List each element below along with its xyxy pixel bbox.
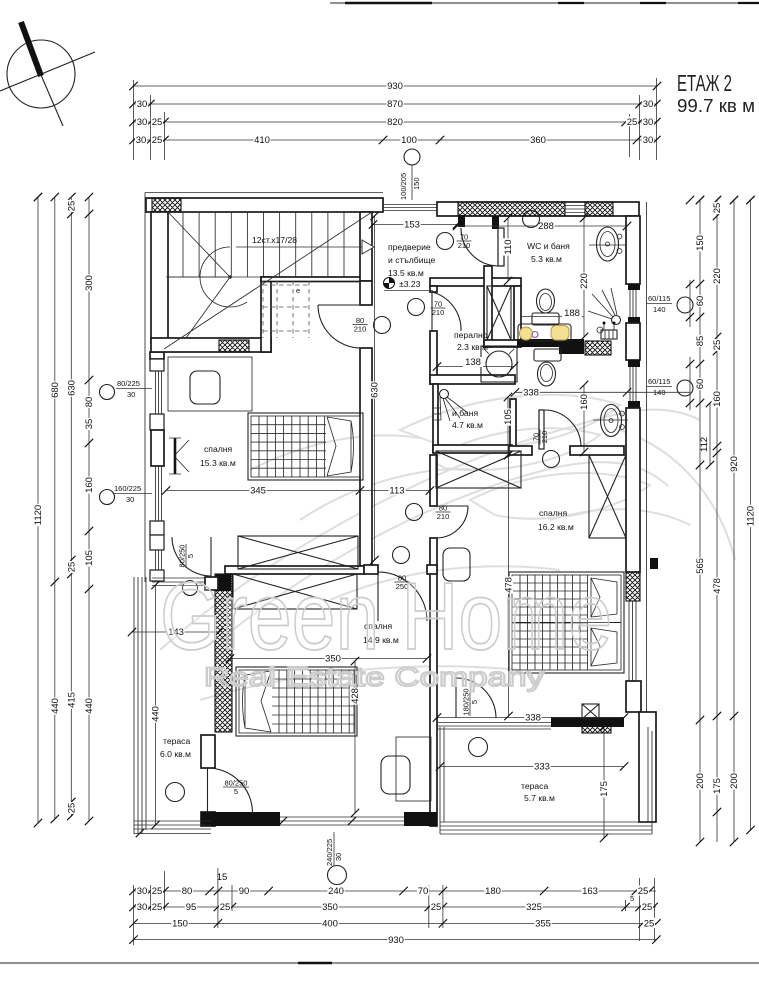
svg-text:930: 930 [387, 81, 403, 92]
svg-text:30: 30 [334, 853, 343, 861]
svg-text:85: 85 [695, 336, 706, 347]
svg-text:и стълбище: и стълбище [388, 255, 436, 265]
svg-text:338: 338 [525, 713, 541, 724]
dimension line 338 upper [511, 387, 690, 399]
svg-text:ЕТАЖ 2: ЕТАЖ 2 [677, 70, 732, 96]
svg-text:30: 30 [643, 117, 654, 128]
door label DB 80/250 [395, 574, 410, 592]
door label D8 180/250 [462, 688, 480, 716]
svg-text:60/115: 60/115 [648, 294, 670, 303]
bed 3 bedroom 16.2 double [509, 572, 624, 673]
svg-text:415: 415 [67, 692, 78, 708]
hatched wall bedroom2 west hatched wall [215, 574, 232, 732]
door label D5 70/210 [457, 233, 472, 251]
dimension line 1120 left [33, 193, 45, 827]
svg-text:60/115: 60/115 [648, 377, 670, 386]
svg-text:220: 220 [712, 268, 723, 284]
svg-text:80: 80 [84, 397, 95, 408]
svg-text:тераса: тераса [163, 736, 190, 746]
wall right wall top [626, 216, 640, 284]
solid wall jamb window1 bottom [628, 317, 640, 323]
room label bedroom 14.9 [363, 621, 399, 645]
svg-text:350: 350 [322, 902, 338, 913]
wall bedroom divider wall [225, 566, 364, 574]
dimension 112 right [699, 399, 714, 469]
solid wall jamb window2 bottom [628, 401, 640, 408]
svg-text:630: 630 [370, 382, 381, 398]
svg-text:440: 440 [151, 706, 162, 722]
bed 2 bedroom 14.9 [236, 667, 357, 736]
right window stub line 1 [686, 280, 694, 327]
radiator symbol bedroom1 [169, 438, 189, 474]
dimension line 440 terrace [150, 581, 162, 829]
svg-text:5: 5 [186, 554, 195, 558]
svg-text:440: 440 [84, 698, 95, 714]
hatched wall pier top wall WC west [458, 202, 565, 216]
wall bedroom3 top wall west [509, 446, 532, 455]
door/window marker circle door D8 [469, 738, 488, 757]
window1 right glazing [630, 290, 636, 317]
toilet WC [532, 289, 559, 325]
svg-text:35: 35 [84, 419, 95, 430]
wall right wall between windows [626, 323, 640, 360]
dimension 188 WC [521, 308, 584, 319]
wall laundry east wall [514, 286, 521, 347]
svg-text:210: 210 [354, 325, 367, 334]
hatched wall pier under-stair west [152, 338, 181, 352]
terrace north threshold lines [152, 578, 213, 586]
dimension line bottom row1 [129, 886, 656, 898]
svg-text:565: 565 [695, 558, 706, 574]
svg-text:680: 680 [50, 382, 61, 398]
sheet border bottom line [0, 962, 759, 964]
dimension line 338 bedroom3 [433, 712, 628, 724]
terrace east edge lines [648, 727, 652, 834]
dimension 138 laundry [433, 357, 518, 371]
window W1 glazing left wall [156, 371, 162, 414]
watermark leaf curves [160, 395, 735, 700]
svg-text:355: 355 [535, 919, 551, 930]
dimension line 105 bath [503, 393, 515, 459]
window label 80/225 left [116, 379, 152, 399]
stair landing line [168, 276, 261, 278]
wall top wall right block [437, 202, 639, 216]
svg-text:360: 360 [530, 135, 546, 146]
top wall window glazing [565, 206, 585, 213]
svg-text:288: 288 [538, 221, 554, 232]
room label bedroom 16.2 [538, 508, 574, 532]
svg-text:180: 180 [485, 886, 501, 897]
dimension line 410-100-360 top [129, 135, 660, 147]
room label terrace 6.0 [160, 736, 191, 759]
svg-text:30: 30 [136, 135, 147, 146]
svg-text:12ст.х17/28: 12ст.х17/28 [252, 235, 297, 245]
svg-text:160/225: 160/225 [114, 484, 141, 493]
dimension line right chain 1 [695, 196, 707, 846]
door/window marker circle entry door top [404, 149, 420, 165]
dimension line bottom row3 [129, 918, 660, 930]
wall bedroom3 top wall east [570, 446, 624, 455]
svg-text:25: 25 [638, 886, 649, 897]
svg-text:25: 25 [644, 919, 655, 930]
room label bedroom 15.3 [200, 444, 236, 468]
svg-text:25: 25 [712, 340, 723, 351]
door/window marker circle door D3 [374, 317, 391, 334]
window3 right glazing [629, 601, 636, 681]
bottom window glazing bedroom2 [280, 817, 404, 825]
svg-text:2.3 кв.м: 2.3 кв.м [457, 342, 488, 352]
wall stair nook west wall [261, 277, 271, 352]
svg-text:210: 210 [540, 431, 549, 444]
door/window marker circle door D5 [437, 233, 454, 250]
svg-text:100: 100 [401, 135, 417, 146]
door label D4 70/210 [431, 300, 446, 318]
bottom chain guide lines [134, 868, 655, 945]
wardrobe B bedroom2 [233, 574, 357, 609]
svg-text:30: 30 [137, 886, 148, 897]
terrace south railing right [440, 822, 652, 834]
svg-text:240: 240 [328, 886, 344, 897]
svg-text:175: 175 [712, 778, 723, 794]
dimension line 160 bath [579, 381, 591, 456]
outer eave line left [144, 193, 146, 583]
room label terrace 5.7 [521, 781, 555, 803]
svg-text:100/205: 100/205 [399, 173, 408, 200]
svg-text:338: 338 [523, 388, 539, 399]
svg-text:630: 630 [67, 380, 78, 396]
dimension line 630 hall [369, 212, 381, 564]
wall door jamb terrace north [205, 577, 218, 590]
svg-text:1120: 1120 [33, 505, 44, 525]
dimension line 680-440 left [49, 197, 61, 823]
svg-text:210: 210 [437, 512, 450, 521]
solid wall pier WC door [492, 216, 499, 229]
room label WC [527, 241, 570, 264]
svg-text:25: 25 [220, 902, 231, 913]
door/window marker circle balcony door bottom [328, 866, 347, 885]
svg-text:13.5 кв.м: 13.5 кв.м [388, 268, 424, 278]
stair headroom dashed lines [263, 281, 309, 338]
door/window marker circle window 60/115 upper [677, 297, 693, 313]
svg-text:Real Estate Company: Real Estate Company [204, 662, 545, 692]
door/window marker circle window 80/225 [100, 385, 115, 400]
door D4 to laundry [432, 292, 461, 331]
wall right wall middle [626, 408, 640, 572]
svg-text:30: 30 [126, 495, 134, 504]
svg-text:105: 105 [84, 550, 95, 566]
wall under-stair wall [151, 338, 271, 352]
north arrow [0, 22, 95, 126]
svg-text:113: 113 [389, 486, 404, 497]
svg-text:410: 410 [254, 135, 270, 146]
window label 160/225 left [113, 484, 152, 504]
svg-text:5: 5 [470, 700, 479, 704]
right window stub line 2 [686, 357, 694, 410]
svg-text:60: 60 [695, 296, 706, 307]
desk 2 bedroom2 [396, 737, 431, 801]
svg-text:5.3 кв.м: 5.3 кв.м [531, 254, 562, 264]
door D7 to bedroom3 [539, 410, 581, 449]
svg-text:25: 25 [67, 803, 78, 814]
window sill box left wall W2-W3 [150, 521, 164, 535]
wardrobe D [436, 451, 521, 488]
svg-text:105: 105 [503, 409, 514, 425]
svg-text:70: 70 [418, 886, 429, 897]
svg-text:спалня: спалня [204, 444, 232, 454]
solid wall bottom wall east solid [404, 812, 437, 826]
svg-text:188: 188 [564, 308, 580, 319]
dimension line 288 WC [453, 221, 631, 233]
dimension line 333 terrace2 [436, 761, 628, 773]
door D2 bedroom2 to terrace [208, 768, 253, 812]
wall top wall stair block [146, 198, 383, 212]
door DB to bedroom2 [378, 572, 427, 621]
svg-text:WC и баня: WC и баня [527, 241, 570, 251]
wall right wall lower [626, 681, 641, 712]
door label D1 80/250 [178, 544, 196, 568]
vanity counter with basins (highlighted) [518, 324, 571, 341]
wall laundry south wall [430, 375, 515, 384]
svg-text:30: 30 [137, 902, 148, 913]
chair 1 bedroom1 [190, 371, 220, 404]
wall laundry west stub [430, 286, 437, 292]
svg-text:Green Home: Green Home [160, 563, 612, 670]
svg-text:4.7 кв.м: 4.7 кв.м [452, 420, 483, 430]
dimension line 630-415 left [66, 197, 78, 820]
svg-text:99.7 кв м: 99.7 кв м [677, 96, 755, 116]
svg-text:163: 163 [582, 886, 598, 897]
svg-text:150: 150 [172, 919, 188, 930]
wall bedroom2 west corner [201, 812, 215, 826]
wall wall above door D3 [360, 281, 372, 305]
wall hall east / bedroom2 east wall [430, 538, 437, 826]
wall bedroom2 west wall stub [201, 735, 215, 768]
svg-text:e: e [296, 286, 300, 295]
wall WC west wall [484, 266, 492, 347]
dimension line right chain 4 [745, 196, 757, 834]
svg-text:220: 220 [579, 273, 590, 289]
terrace west railing [134, 577, 146, 834]
svg-text:80: 80 [182, 886, 193, 897]
side table bedroom3 [443, 548, 470, 581]
dimension line bottom row4 [129, 934, 660, 946]
right chain top tick row [686, 196, 755, 204]
svg-text:95: 95 [186, 902, 197, 913]
room label laundry [454, 330, 488, 352]
left chain top tick row [34, 193, 93, 201]
svg-text:30: 30 [643, 99, 654, 110]
svg-text:±3.23: ±3.23 [399, 279, 421, 289]
solid wall jamb window1 top [628, 284, 640, 290]
shower grate WC [601, 322, 617, 340]
wardrobe E bedroom3 [589, 455, 626, 538]
door/window marker circle window 60/115 lower [677, 380, 693, 396]
desk 1 bedroom1 [168, 357, 252, 411]
svg-text:160: 160 [712, 391, 723, 407]
wall stair nook top wall [261, 277, 370, 282]
svg-text:25: 25 [627, 117, 638, 128]
svg-text:30: 30 [137, 117, 148, 128]
solid wall bedroom2 west wall solid top [216, 574, 231, 591]
dimension line left inner chain [84, 197, 96, 825]
dimension line 110 WC [503, 214, 515, 285]
stair break line [164, 212, 372, 349]
door/window marker circle WC vent top [523, 211, 540, 228]
dimension line 345-113 bedroom1 [162, 485, 434, 497]
svg-text:138: 138 [465, 357, 481, 368]
wall hall east wall upper [430, 455, 437, 506]
door label D2 80/250 [223, 779, 249, 797]
washing machine laundry [481, 346, 517, 382]
dimension line right chain 3 [729, 196, 741, 846]
svg-text:930: 930 [388, 935, 404, 946]
wall left wall upper [151, 212, 168, 343]
solid wall WC south wall solid [517, 339, 584, 347]
door/window marker circle door D4 [408, 299, 425, 316]
wall bedroom1 east wall [360, 348, 372, 566]
terrace threshold bedroom3 [437, 723, 551, 730]
wall vestibule west wall upper [360, 212, 372, 281]
svg-text:160: 160 [84, 477, 95, 493]
svg-text:820: 820 [387, 117, 403, 128]
svg-text:6.0 кв.м: 6.0 кв.м [160, 749, 191, 759]
svg-text:25: 25 [152, 117, 163, 128]
sink WC [589, 227, 626, 261]
solid wall jamb entry east [458, 215, 465, 227]
svg-text:16.2 кв.м: 16.2 кв.м [538, 522, 574, 532]
solid wall WC south pier [559, 347, 584, 354]
svg-text:25: 25 [712, 203, 723, 214]
svg-text:333: 333 [534, 762, 550, 773]
stair winder circle [200, 247, 247, 307]
shower drain fan WC [588, 288, 621, 333]
svg-text:478: 478 [712, 578, 723, 594]
stair treads upper flight [183, 212, 344, 277]
hatched wall pier top-left corner [152, 198, 181, 212]
hatched wall pier right wall bedroom3 [626, 572, 640, 601]
svg-text:210: 210 [432, 308, 445, 317]
svg-text:перално: перално [454, 330, 488, 340]
svg-text:345: 345 [250, 486, 266, 497]
hatched wall pier top wall WC east [585, 202, 613, 216]
window W3 glazing left wall [156, 550, 162, 570]
window sill box left wall bottom [150, 570, 164, 581]
svg-text:870: 870 [387, 99, 403, 110]
dimension line 143 terrace [128, 627, 223, 639]
svg-text:30: 30 [643, 135, 654, 146]
svg-text:140: 140 [653, 305, 666, 314]
door/window marker circle door D7 [543, 451, 560, 468]
svg-text:тераса: тераса [521, 781, 548, 791]
dimension line 930 top [129, 81, 661, 93]
dimension line 350 bedroom2 [226, 653, 431, 665]
solid wall bay corner mark [650, 558, 658, 569]
window2 right glazing [630, 367, 636, 401]
svg-text:25: 25 [152, 902, 163, 913]
level mark +3.23 [384, 278, 434, 291]
svg-text:5: 5 [630, 894, 634, 903]
sink bath lower [593, 405, 628, 437]
bottom window hash marks [279, 817, 356, 825]
wall hall south wall west [364, 565, 378, 574]
svg-text:5.7 кв.м: 5.7 кв.м [524, 793, 555, 803]
dimension line 153 vestibule [369, 219, 461, 231]
dimension line 220 WC [579, 214, 591, 341]
wardrobe C hall closet [487, 286, 511, 340]
wall vestibule south wall [430, 278, 521, 286]
terrace west edge right terrace [440, 727, 444, 834]
wall bath west wall [433, 384, 438, 452]
door label 240/225 30 bottom [325, 832, 343, 866]
dimension line 820 top [129, 117, 660, 129]
stair walk line with arrow [236, 240, 374, 254]
svg-text:150: 150 [695, 235, 706, 251]
svg-text:предверие: предверие [388, 242, 431, 252]
svg-text:25: 25 [152, 135, 163, 146]
terrace south railing left [134, 821, 211, 834]
dimension line 478 bedroom3 [503, 451, 515, 720]
solid wall jamb window2 top [628, 360, 640, 367]
outer eave line top [145, 192, 383, 194]
svg-text:1120: 1120 [746, 506, 757, 526]
wall left wall stub [150, 352, 164, 359]
door label D3 80/210 [353, 316, 368, 334]
hatched wall pier shower south [585, 341, 611, 355]
door D3 to bedroom1 nook [318, 305, 361, 348]
svg-text:920: 920 [729, 456, 740, 472]
svg-text:5: 5 [234, 787, 238, 796]
window sill boxes left wall W1 [150, 359, 164, 371]
wall WC south-west wall [484, 340, 518, 347]
hatched wall pier terrace south [582, 718, 611, 733]
wardrobe A bedroom1 [238, 536, 358, 569]
dimension line right chain 2 [712, 196, 724, 842]
top chain guide lines [134, 78, 657, 160]
svg-text:200: 200 [729, 773, 740, 789]
dimension line 428 bedroom2 [350, 657, 362, 817]
solid wall bedroom3 south wall [551, 717, 624, 727]
door/window marker circle door D6 [406, 504, 423, 521]
svg-text:153: 153 [404, 220, 420, 231]
svg-text:200: 200 [695, 773, 706, 789]
wall laundry west wall [430, 331, 437, 384]
door D8 bedroom3 to terrace [456, 678, 496, 718]
svg-text:30: 30 [127, 390, 135, 399]
svg-text:90: 90 [239, 886, 250, 897]
shaft box with X [582, 704, 599, 719]
svg-text:112: 112 [699, 437, 710, 452]
bed 1 bedroom 15.3 [248, 413, 363, 480]
wall terrace east pier [639, 712, 656, 822]
shower symbol bath 4.7 [434, 390, 468, 427]
wall bath east wall [510, 399, 516, 452]
svg-text:150: 150 [412, 177, 421, 190]
dimension line bottom row2 [129, 902, 658, 914]
svg-text:300: 300 [84, 275, 95, 291]
door D5 to WC [461, 228, 504, 266]
svg-text:110: 110 [503, 239, 514, 254]
room label bath 4.7 [452, 408, 483, 430]
outer eave line right [646, 202, 648, 712]
svg-text:25: 25 [642, 902, 653, 913]
stair winder fan lines [166, 212, 230, 338]
door/window marker circle door DB [393, 547, 410, 564]
toilet bath [534, 349, 561, 386]
room label vestibule [388, 242, 436, 278]
door label D6 80/210 [436, 504, 451, 522]
door/window marker circle window 160/225 [100, 490, 115, 505]
svg-text:160: 160 [579, 394, 590, 410]
